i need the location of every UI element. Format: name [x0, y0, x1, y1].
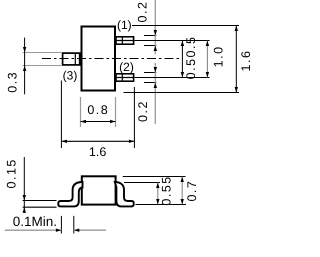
- dimension 0.7 arrows: [181, 177, 184, 183]
- svg-text:1.0: 1.0: [212, 45, 226, 67]
- package body (top view): [82, 27, 116, 91]
- dimension 0.15 line: [23, 157, 25, 213]
- dimension 0.55 arrows: [156, 183, 159, 189]
- dimension 0.1Min line: [5, 229, 106, 231]
- pin 1 (top right lead, top view): [116, 36, 134, 44]
- dimension 0.15 extension lines: [23, 201, 57, 208]
- dimension 0.7 line: [181, 177, 183, 205]
- package body (side view): [82, 176, 116, 204]
- svg-text:0.1Min.: 0.1Min.: [13, 214, 57, 229]
- dimension 0.2 bottom line: [154, 63, 156, 124]
- svg-text:0.8: 0.8: [87, 103, 109, 117]
- dimension 1.6 right extension lines: [124, 26, 240, 93]
- svg-text:0.55: 0.55: [159, 175, 173, 205]
- svg-text:0.5: 0.5: [184, 57, 198, 79]
- right lead (side view): [115, 182, 134, 206]
- dimension 0.8 extension lines: [81, 97, 116, 127]
- dimension 0.2 bottom extension lines: [144, 73, 156, 83]
- dimension 1.0 line: [206, 41, 208, 78]
- pin 2 (bottom right lead, top view): [116, 73, 134, 81]
- svg-text:0.5: 0.5: [184, 36, 198, 58]
- dimension 1.6 right arrows: [235, 26, 238, 32]
- svg-text:0.15: 0.15: [5, 158, 19, 188]
- dimension 0.2 top extension lines: [144, 36, 156, 46]
- dimension 0.5/0.5 line: [181, 41, 183, 78]
- svg-text:1.6: 1.6: [89, 145, 106, 159]
- svg-text:1.6: 1.6: [239, 50, 253, 72]
- svg-text:0.3: 0.3: [6, 71, 20, 93]
- dimension 0.2 top arrows: [154, 30, 157, 36]
- svg-text:0.2: 0.2: [136, 100, 150, 122]
- dimension 0.3 extension lines: [23, 53, 62, 66]
- dimension 0.8 line: [81, 121, 116, 123]
- svg-text:(2): (2): [119, 60, 134, 74]
- dimension 0.1Min extension ticks: [61, 216, 73, 234]
- dimension 1.6 right line: [235, 26, 237, 93]
- dimension 0.2 bottom arrows: [154, 67, 157, 73]
- dimension 0.2 top line: [154, 0, 156, 54]
- dimension 1.6 bottom extension lines: [61, 81, 134, 149]
- dimension 0.5/0.5 arrows: [181, 41, 184, 47]
- dimension 0.3 arrows: [23, 47, 26, 53]
- dimension 0.8 arrows: [81, 120, 87, 123]
- dimension 1.0 arrows: [206, 41, 209, 47]
- dimension 0.15 arrows: [23, 195, 26, 201]
- centerline (dash-dot): [42, 58, 183, 60]
- svg-text:0.2: 0.2: [135, 1, 149, 23]
- dimension 1.6 bottom arrows: [61, 140, 67, 143]
- svg-text:(1): (1): [117, 18, 132, 32]
- pin center extension lines: [135, 41, 210, 78]
- svg-text:(3): (3): [63, 68, 78, 82]
- dimension 0.55 line: [157, 183, 159, 205]
- dimension 0.1Min arrows: [56, 229, 62, 232]
- left lead (side view): [58, 182, 82, 206]
- dimension 1.6 bottom line: [61, 140, 134, 142]
- side view extension lines: [123, 177, 186, 205]
- svg-text:0.7: 0.7: [185, 180, 199, 202]
- pin 3 (left lead, top view): [63, 53, 80, 65]
- dimension 0.3 line: [24, 38, 26, 95]
